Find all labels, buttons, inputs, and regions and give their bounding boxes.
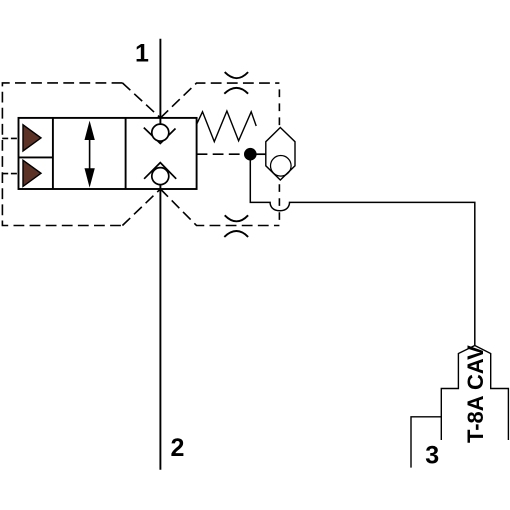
svg-text:2: 2 bbox=[171, 434, 185, 462]
svg-text:T-8A CAV: T-8A CAV bbox=[463, 345, 488, 443]
svg-text:3: 3 bbox=[425, 442, 439, 470]
svg-text:1: 1 bbox=[135, 39, 149, 67]
